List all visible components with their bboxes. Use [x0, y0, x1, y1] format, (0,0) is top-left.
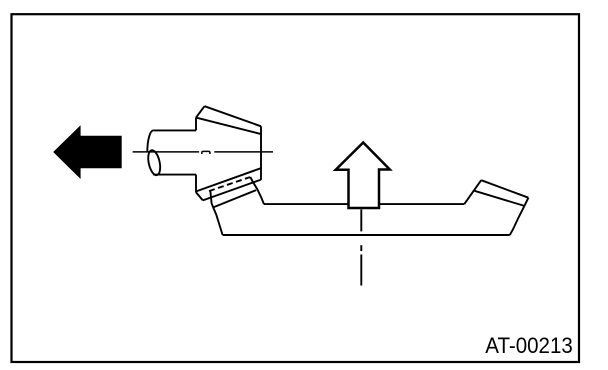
- svg-text:AT-00213: AT-00213: [485, 333, 573, 358]
